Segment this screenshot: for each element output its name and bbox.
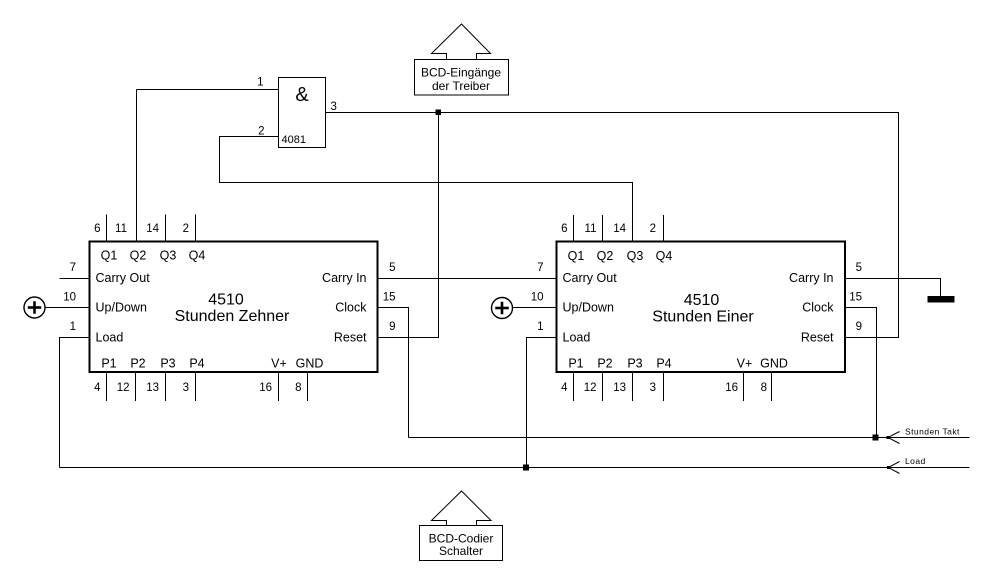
- svg-text:Clock: Clock: [335, 301, 367, 315]
- svg-text:4: 4: [561, 382, 568, 394]
- wire U2 reset to junction: [378, 113, 439, 338]
- svg-text:3: 3: [183, 382, 189, 394]
- svg-text:1: 1: [257, 77, 263, 89]
- svg-text:4510: 4510: [208, 292, 244, 309]
- ground bar: [928, 296, 955, 303]
- wire U3 load down: [527, 338, 557, 468]
- svg-text:Q3: Q3: [627, 249, 644, 263]
- arrow symbol top: [432, 24, 491, 60]
- box BCD-Eingaenge: [415, 60, 509, 96]
- svg-text:7: 7: [70, 262, 76, 274]
- wire Load line: [60, 467, 970, 469]
- svg-text:3: 3: [331, 101, 337, 113]
- svg-text:3: 3: [650, 382, 656, 394]
- wire U3 clock down: [845, 308, 877, 438]
- svg-text:1: 1: [537, 321, 543, 333]
- svg-text:7: 7: [537, 262, 543, 274]
- wire gate pin1 horizontal: [137, 89, 279, 91]
- svg-text:&: &: [295, 84, 309, 106]
- svg-text:Q2: Q2: [130, 249, 147, 263]
- svg-text:11: 11: [115, 223, 127, 235]
- svg-text:Q4: Q4: [189, 249, 206, 263]
- svg-text:Q4: Q4: [656, 249, 673, 263]
- arrow vertex dot Load: [887, 466, 890, 469]
- svg-text:Load: Load: [905, 456, 926, 466]
- svg-text:Carry Out: Carry Out: [96, 271, 151, 285]
- svg-text:Carry Out: Carry Out: [563, 271, 618, 285]
- svg-text:Carry In: Carry In: [789, 271, 834, 285]
- wire carry link U2 CarryIn - U3 CarryOut: [378, 278, 557, 280]
- svg-text:GND: GND: [760, 357, 788, 371]
- IC U3 : 4510 Stunden Einer box: [557, 242, 846, 373]
- svg-text:der Treiber: der Treiber: [432, 79, 490, 93]
- junction dot Stunden Takt: [873, 435, 879, 441]
- svg-text:P4: P4: [189, 357, 204, 371]
- svg-text:12: 12: [117, 382, 130, 394]
- svg-text:Carry In: Carry In: [322, 271, 367, 285]
- svg-text:6: 6: [94, 223, 100, 235]
- wire U2 carry out stub: [60, 278, 90, 280]
- wire gate pin1 vertical to U2 Q2: [136, 90, 138, 242]
- svg-text:Q2: Q2: [597, 249, 614, 263]
- svg-text:Up/Down: Up/Down: [563, 301, 614, 315]
- svg-text:13: 13: [613, 382, 626, 394]
- op-amp U1 : 4081 AND gate box: [279, 78, 326, 148]
- svg-text:14: 14: [146, 223, 159, 235]
- svg-text:Reset: Reset: [801, 331, 834, 345]
- U3 bottom pin stubs: [573, 373, 575, 402]
- svg-text:Up/Down: Up/Down: [96, 301, 147, 315]
- svg-text:4081: 4081: [282, 134, 306, 146]
- arrowhead Load: [889, 462, 900, 474]
- svg-text:Reset: Reset: [334, 331, 367, 345]
- wire U2 load down: [60, 338, 90, 468]
- svg-text:9: 9: [389, 321, 395, 333]
- svg-text:BCD-Eingänge: BCD-Eingänge: [421, 66, 501, 80]
- svg-text:P4: P4: [656, 357, 671, 371]
- svg-text:15: 15: [849, 292, 862, 304]
- svg-text:15: 15: [383, 292, 396, 304]
- svg-text:P1: P1: [101, 357, 116, 371]
- svg-text:P1: P1: [568, 357, 583, 371]
- svg-text:V+: V+: [271, 357, 287, 371]
- junction dot gate output: [436, 110, 442, 116]
- svg-text:6: 6: [561, 223, 567, 235]
- junction dot Load: [523, 465, 529, 471]
- svg-text:Q1: Q1: [568, 249, 585, 263]
- svg-text:16: 16: [725, 382, 738, 394]
- svg-text:5: 5: [856, 262, 862, 274]
- svg-text:2: 2: [650, 223, 656, 235]
- svg-text:P2: P2: [130, 357, 145, 371]
- wire gate pin3 output: [326, 113, 899, 338]
- box BCD-Codier: [420, 526, 503, 561]
- arrowhead Stunden Takt: [888, 432, 900, 444]
- arrow symbol bottom: [432, 491, 492, 526]
- svg-text:8: 8: [295, 382, 301, 394]
- svg-text:11: 11: [585, 223, 597, 235]
- svg-text:P2: P2: [597, 357, 612, 371]
- svg-text:P3: P3: [160, 357, 175, 371]
- svg-text:9: 9: [856, 321, 862, 333]
- svg-text:2: 2: [183, 223, 189, 235]
- svg-text:14: 14: [613, 223, 626, 235]
- svg-text:P3: P3: [627, 357, 642, 371]
- wire gate pin2 route: [220, 137, 633, 242]
- svg-text:2: 2: [258, 126, 264, 138]
- wire U2 up/down: [45, 307, 90, 309]
- svg-text:Load: Load: [563, 331, 591, 345]
- U2 bottom pin stubs: [106, 373, 108, 402]
- wire Stunden Takt line: [409, 437, 970, 439]
- svg-text:10: 10: [63, 292, 76, 304]
- U3 top pin stubs: [573, 215, 575, 242]
- svg-text:13: 13: [146, 382, 159, 394]
- wire U2 clock down: [378, 308, 409, 438]
- svg-text:12: 12: [584, 382, 597, 394]
- svg-text:Q3: Q3: [160, 249, 177, 263]
- IC U2 : 4510 Stunden Zehner box: [90, 242, 378, 373]
- svg-text:10: 10: [531, 292, 544, 304]
- arrow vertex dot Takt: [887, 436, 890, 439]
- svg-text:V+: V+: [737, 357, 753, 371]
- wire U3 carry in to ground: [845, 279, 941, 297]
- svg-text:8: 8: [761, 382, 767, 394]
- svg-text:Stunden Zehner: Stunden Zehner: [175, 308, 290, 325]
- svg-text:16: 16: [259, 382, 272, 394]
- wire U3 up/down: [513, 307, 557, 309]
- U2 top pin stubs: [106, 215, 108, 242]
- svg-text:Stunden Takt: Stunden Takt: [905, 427, 960, 437]
- svg-text:4510: 4510: [684, 292, 720, 309]
- svg-text:GND: GND: [296, 357, 324, 371]
- svg-text:Q1: Q1: [101, 249, 118, 263]
- svg-text:4: 4: [94, 382, 101, 394]
- svg-text:Stunden Einer: Stunden Einer: [652, 309, 754, 326]
- plus circle U3: [492, 298, 513, 319]
- svg-text:Schalter: Schalter: [439, 544, 483, 558]
- svg-text:5: 5: [389, 262, 395, 274]
- plus circle U2: [24, 297, 45, 318]
- plus cross U3: [495, 307, 509, 310]
- svg-text:Load: Load: [96, 331, 124, 345]
- svg-text:Clock: Clock: [802, 301, 834, 315]
- plus cross U2: [28, 306, 42, 309]
- svg-text:1: 1: [70, 321, 76, 333]
